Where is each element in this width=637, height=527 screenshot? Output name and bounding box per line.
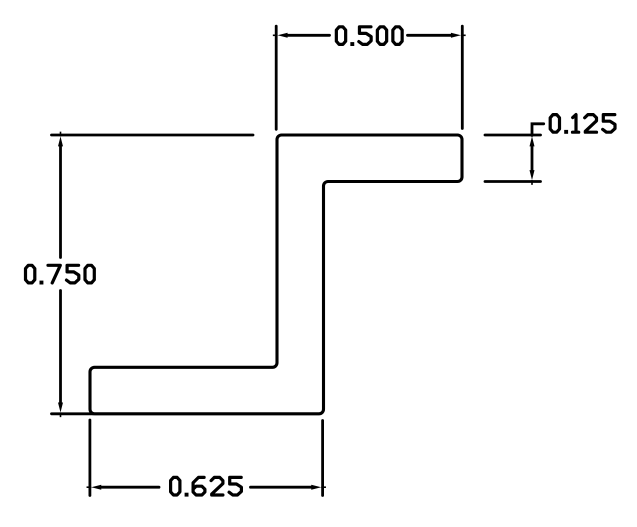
dimension 0.625 (bottom) [90, 420, 323, 496]
leader 0.125 [532, 124, 544, 136]
arrowhead 0.125 bottom [530, 170, 535, 180]
arrowhead 0.750 top [58, 136, 63, 146]
dimension line 0.750 bottom segment [59, 291, 62, 404]
text 0.125 [550, 115, 615, 134]
arrowhead 0.500 left [278, 33, 288, 38]
extension line right of 0.500 [461, 26, 464, 128]
part outline: Z-profile [90, 135, 462, 414]
dimension line 0.500 left segment [287, 34, 330, 37]
extension line bottom of 0.750 [52, 412, 94, 415]
dimension 0.125 (right side, thickness) [485, 124, 544, 182]
dimension line 0.750 top segment [59, 146, 62, 258]
text 0.750 [26, 265, 95, 284]
extension line right of 0.625 [321, 421, 324, 496]
dimension line 0.125 vertical [531, 146, 534, 171]
extension line top of 0.125 [485, 134, 541, 137]
dimension line 0.625 left segment [101, 486, 159, 489]
dimension 0.500 (top) [276, 26, 462, 129]
arrowhead 0.750 bottom [58, 402, 63, 412]
arrowhead 0.500 right [451, 33, 461, 38]
extension line top of 0.750 [52, 134, 254, 137]
arrowhead 0.625 left [91, 485, 101, 490]
text 0.500 [336, 27, 402, 46]
extension line left of 0.500 [275, 26, 278, 129]
arrowhead 0.125 top [530, 136, 535, 146]
extension line left of 0.625 [89, 420, 92, 496]
dimension line 0.500 right segment [408, 34, 452, 37]
extension line bottom of 0.125 [485, 180, 541, 183]
dimension line 0.625 right segment [251, 486, 312, 489]
dimension 0.750 (left) [52, 135, 254, 414]
text 0.625 [171, 477, 242, 496]
arrowhead 0.625 right [311, 485, 321, 490]
